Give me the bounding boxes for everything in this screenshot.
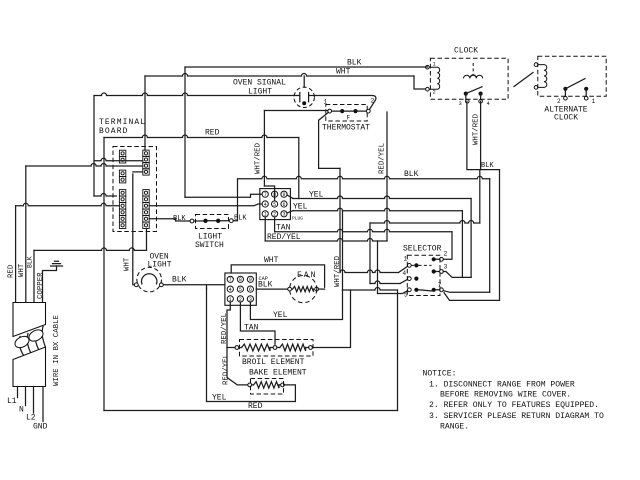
svg-text:BEFORE REMOVING WIRE COVER.: BEFORE REMOVING WIRE COVER.	[440, 391, 571, 400]
wire YEL from cap pin 3	[250, 290, 342, 320]
wire to strip sq2	[94, 158, 143, 161]
wire: y=290 to drop	[343, 288, 398, 291]
wire: selector 4 approach	[370, 281, 400, 284]
svg-text:RED: RED	[8, 264, 16, 278]
plug pin 5	[272, 201, 278, 207]
svg-text:3: 3	[282, 212, 285, 218]
plug pin 2	[272, 211, 278, 217]
cap pin 4	[227, 286, 233, 292]
svg-text:L1: L1	[7, 397, 17, 406]
terminal board dashed box	[113, 147, 157, 232]
broil element dashed box	[240, 340, 314, 357]
svg-text:4: 4	[229, 287, 232, 293]
oven light bulb arc	[142, 274, 157, 284]
svg-text:RED: RED	[248, 402, 263, 411]
wire: lamp tick to WHT	[303, 76, 305, 87]
light switch dashed box	[196, 215, 229, 229]
wire: light switch to BLK line	[233, 180, 237, 221]
clock switch lever	[466, 87, 482, 94]
wire: clock 4 down	[480, 101, 482, 169]
wire: vertical x=94 down	[93, 96, 95, 196]
wire: YEL pin3 drop to selector 3 bus	[461, 211, 463, 278]
wire WHT vertical x=25.8	[25, 166, 27, 303]
cap connector block outline	[225, 273, 256, 305]
wire: BLK into selector 7	[443, 291, 489, 293]
wire BLK feed y=250.4	[34, 248, 147, 251]
oven signal light lamp	[294, 87, 314, 107]
fan dashed circle	[290, 276, 317, 303]
selector left contact row3	[414, 288, 418, 292]
svg-text:BROIL ELEMENT: BROIL ELEMENT	[242, 358, 305, 367]
selector right terminal row3	[440, 288, 444, 292]
svg-text:CLOCK: CLOCK	[454, 47, 478, 56]
wire: RED loop left vertical x=104	[103, 138, 105, 411]
wire COPPER to ground	[43, 266, 57, 303]
selector left terminal row2	[407, 277, 411, 281]
broil resistor 1	[242, 344, 271, 351]
wire BLK top: node from terminal-board riser to clock pin 1	[185, 66, 427, 68]
selector dashed box	[407, 255, 440, 295]
wire: whtred top rail into thermostat 1	[264, 110, 327, 112]
terminal strip lower-right square 3	[143, 203, 149, 209]
thermostat bar	[332, 110, 367, 112]
clock switch contact B	[479, 92, 483, 96]
wire: oven-signal branch left	[94, 93, 294, 96]
lamp dot	[302, 101, 306, 105]
selector left terminal row1	[407, 264, 411, 268]
wire BLK cap to fan	[256, 288, 287, 290]
ground symbol	[51, 261, 63, 266]
wire: x=94 into board	[94, 194, 116, 197]
selector right contact row1	[432, 257, 436, 261]
selector right terminal row2	[440, 270, 444, 274]
light switch left terminal	[190, 219, 194, 223]
alt clock coil terminal top	[534, 63, 538, 67]
thermostat contact a	[340, 109, 344, 113]
svg-text:F: F	[347, 115, 351, 122]
wire: bake right to YEL bottom	[207, 385, 296, 402]
lead L1	[17, 387, 19, 398]
alt clock contact 1	[584, 87, 588, 91]
BX cable sheath lower cylinder	[13, 347, 46, 387]
wire RED bottom	[104, 410, 398, 412]
selector lever row3	[419, 290, 432, 291]
wire YEL from plug pin 3	[293, 208, 462, 211]
clock dashed box	[430, 58, 508, 99]
alternate clock dashed box	[538, 56, 606, 96]
wire: fan right to WHT	[319, 288, 325, 290]
wire: vert x=370 to selector 4 approach	[369, 223, 371, 284]
bake left terminal	[248, 383, 252, 387]
svg-text:RED/YEL: RED/YEL	[221, 313, 229, 344]
clock motor coil	[429, 67, 439, 89]
oven light dashed circle	[137, 267, 162, 292]
svg-text:1: 1	[324, 99, 328, 106]
wire: selector 5 approach	[378, 291, 408, 294]
terminal strip upper-right square 4	[143, 169, 149, 175]
svg-text:RED/YEL: RED/YEL	[223, 354, 231, 385]
alt clock lever	[565, 79, 585, 89]
svg-text:WHT: WHT	[18, 263, 26, 277]
svg-text:TAN: TAN	[244, 324, 259, 333]
broil resistor 2	[280, 344, 306, 351]
wire: link to strip sq4	[133, 171, 143, 173]
wire: RED/YEL drop to selector 5 approach	[377, 241, 379, 294]
wire: plug pin 2 down	[274, 217, 276, 232]
lamp electrodes	[294, 93, 315, 102]
wire BLK oven light to cap block	[163, 285, 225, 289]
plug connector block outline	[260, 189, 291, 220]
wire: riser to plug pin 7	[185, 194, 262, 197]
plug pin 8	[272, 191, 278, 197]
lead L2	[33, 387, 35, 414]
svg-text:CLOCK: CLOCK	[554, 114, 578, 123]
terminal strip lower-left square 3	[119, 203, 125, 209]
alt clock contact 2	[563, 87, 567, 91]
wire: diag into selector 1	[399, 266, 408, 272]
wire: pin 3 stub	[287, 211, 293, 213]
terminal strip lower-left square 6	[119, 222, 125, 228]
svg-text:PLUG: PLUG	[292, 216, 303, 222]
wire: TAN drop to selector 2	[443, 232, 452, 259]
svg-text:4: 4	[403, 270, 407, 277]
wire: broil right up to bus	[312, 290, 350, 348]
svg-text:YEL: YEL	[293, 203, 308, 212]
svg-text:RANGE.: RANGE.	[440, 423, 469, 432]
wire RED feed y=206	[16, 203, 120, 206]
wire: selector 3 bus	[443, 272, 471, 278]
svg-text:LIGHT: LIGHT	[148, 261, 172, 270]
svg-text:BLK: BLK	[258, 281, 273, 290]
terminal strip lower-right square 2	[143, 196, 149, 202]
plug pin 1	[262, 211, 268, 217]
svg-text:1: 1	[404, 256, 408, 263]
svg-text:YEL: YEL	[309, 191, 324, 200]
wire YEL from plug pin 9	[293, 196, 471, 199]
plug pin 4	[262, 201, 268, 207]
terminal strip lower-right square 5	[143, 216, 149, 222]
svg-text:THERMOSTAT: THERMOSTAT	[322, 124, 370, 133]
terminal strip lower-right square 1	[143, 190, 149, 196]
lead N	[25, 387, 27, 406]
svg-text:TAN: TAN	[276, 224, 291, 233]
terminal pair1 square 2	[119, 157, 125, 163]
bake leads	[252, 384, 281, 386]
plug pin 7	[262, 191, 268, 197]
cable twist loops	[13, 334, 31, 350]
cap pin 9	[247, 276, 253, 282]
wire: oven light left lead	[133, 174, 135, 285]
svg-text:WHT/RED: WHT/RED	[473, 113, 481, 145]
svg-text:BLK: BLK	[404, 170, 419, 179]
svg-text:GND: GND	[33, 423, 48, 432]
svg-text:9: 9	[249, 277, 252, 283]
wire WHT/RED vertical x=264.4	[263, 111, 265, 187]
clock inductor arcs	[464, 75, 483, 78]
wire: diag into selector 4	[400, 279, 408, 283]
broil leads	[239, 347, 309, 349]
fan left terminal	[288, 287, 292, 291]
light switch right terminal	[229, 219, 233, 223]
cap pin 6	[247, 286, 253, 292]
svg-text:5: 5	[404, 292, 408, 299]
svg-text:BLK: BLK	[347, 59, 362, 68]
thermostat dashed box	[326, 105, 367, 122]
svg-text:6: 6	[249, 287, 252, 293]
clock dashed link	[472, 63, 474, 75]
svg-text:RED: RED	[205, 129, 220, 138]
svg-text:3. SERVICER PLEASE RETURN DIAG: 3. SERVICER PLEASE RETURN DIAGRAM TO	[429, 412, 604, 421]
alt clock coil terminal bottom	[534, 86, 538, 90]
cable inner wire curves	[19, 327, 45, 357]
lead GND	[42, 387, 44, 422]
terminal pair2 square 1	[119, 170, 125, 176]
pointer line to alternate clock	[514, 73, 533, 87]
terminal strip upper-right square 3	[143, 163, 149, 169]
wire RED top	[104, 135, 299, 138]
selector row1 link	[411, 264, 431, 266]
wire: vertical riser x=185	[184, 67, 186, 197]
terminal strip lower-left square 2	[119, 196, 125, 202]
plug pin 3	[281, 211, 287, 217]
wire: drop x=206.5 to YEL bottom	[206, 288, 208, 402]
wire: pin 9 stub	[287, 195, 293, 199]
bake right terminal	[281, 383, 285, 387]
svg-text:YEL: YEL	[273, 311, 288, 320]
svg-text:8: 8	[239, 277, 242, 283]
wire RED/YEL vertical x=387	[386, 112, 388, 241]
svg-text:1: 1	[592, 98, 596, 105]
svg-text:OVEN SIGNAL: OVEN SIGNAL	[233, 79, 286, 88]
wire: WHT/RED drop x=342.5	[342, 211, 344, 290]
bake element dashed box	[251, 379, 284, 395]
wire RED vertical x=15.6	[15, 206, 17, 303]
svg-text:BLK: BLK	[481, 162, 494, 170]
svg-text:FAN: FAN	[297, 271, 317, 280]
cap pin 7	[227, 276, 233, 282]
svg-text:N: N	[19, 406, 24, 415]
wire: riser x=479.8 down	[479, 170, 481, 223]
terminal strip lower-left square 1	[119, 190, 125, 196]
wire: strip to plug pin 4	[149, 204, 262, 206]
fan resistor	[293, 287, 314, 292]
clock contact stems	[466, 94, 481, 100]
clock terminal 2	[426, 87, 430, 91]
cap pin 5	[237, 286, 243, 292]
wire: thermostat 1 down and jog	[319, 112, 340, 168]
cap pin 2	[237, 296, 243, 302]
wire WHT feed y=166	[26, 164, 143, 167]
oven light right terminal	[160, 283, 164, 287]
wire: selector 1 approach	[340, 270, 399, 273]
wire TAN from plug pin 2	[275, 229, 452, 232]
svg-text:WHT: WHT	[336, 68, 351, 77]
cap pin 8	[237, 276, 243, 282]
BX cable sheath upper cylinder	[13, 303, 46, 337]
wire RED/YEL tap to broil left	[227, 347, 235, 349]
svg-text:9: 9	[282, 192, 285, 198]
wire: RED drop to YEL node	[298, 138, 300, 199]
selector right contact row2	[432, 269, 436, 273]
terminal strip lower-left square 4	[119, 209, 125, 215]
plug pin 9	[281, 191, 287, 197]
broil right terminal	[309, 346, 313, 350]
terminal strip upper-right square 1	[143, 150, 149, 156]
svg-text:2: 2	[557, 98, 561, 105]
svg-text:NOTICE:: NOTICE:	[423, 370, 457, 379]
wire bus y=223	[370, 221, 480, 223]
clock terminal 4	[479, 99, 483, 103]
svg-text:BLK: BLK	[172, 276, 187, 285]
wire: selector 7 lower to x=499.5	[444, 293, 500, 301]
svg-text:RED/YEL: RED/YEL	[267, 233, 301, 242]
svg-text:2: 2	[371, 98, 375, 105]
svg-text:2: 2	[444, 251, 448, 258]
wire: whtred into plug pin 8	[264, 186, 274, 201]
wire RED/YEL from plug pin 1	[265, 239, 387, 242]
wire TAN from cap pin 2	[240, 302, 275, 344]
svg-text:WHT: WHT	[264, 256, 279, 265]
clock switch contact A	[464, 92, 468, 96]
svg-text:7: 7	[264, 192, 267, 198]
svg-text:LIGHT: LIGHT	[248, 88, 272, 97]
svg-text:3: 3	[444, 264, 448, 271]
light switch contact b	[216, 219, 220, 223]
terminal pair1 square 1	[119, 150, 125, 156]
terminal strip lower-right square 6	[143, 222, 149, 228]
oven light left terminal	[134, 283, 138, 287]
svg-text:1. DISCONNECT RANGE FROM POWER: 1. DISCONNECT RANGE FROM POWER	[429, 381, 575, 390]
selector right links	[436, 259, 440, 290]
bake resistor	[254, 382, 280, 388]
alt clock coil	[538, 65, 547, 88]
wire WHT drop to clock pin 2	[414, 76, 426, 89]
svg-text:3: 3	[459, 100, 462, 107]
svg-text:BLK: BLK	[27, 256, 34, 268]
terminal strip lower-right square 4	[143, 209, 149, 215]
alt clock stems	[565, 89, 586, 97]
wire WHT top	[145, 74, 414, 77]
svg-text:WIRE IN BX CABLE: WIRE IN BX CABLE	[53, 314, 61, 386]
svg-text:SELECTOR: SELECTOR	[403, 245, 442, 254]
selector left contact row1	[414, 263, 418, 267]
svg-text:5: 5	[239, 287, 242, 293]
thermostat contact b	[353, 109, 357, 113]
wire: BLK right vertical x=489.7	[489, 179, 491, 292]
svg-text:SWITCH: SWITCH	[195, 241, 224, 250]
wire BLK riser to strip	[146, 229, 148, 251]
svg-text:COPPER: COPPER	[37, 272, 45, 299]
svg-text:5: 5	[273, 202, 276, 208]
wire: clock 3 down and jog	[467, 101, 500, 169]
selector left contact row2	[414, 277, 418, 281]
svg-text:WHT: WHT	[124, 257, 132, 271]
wire: plug pin 1 down	[264, 217, 266, 241]
clock coil squiggle	[471, 75, 476, 77]
broil left terminal	[235, 346, 239, 350]
plug pin 6	[281, 201, 287, 207]
clock terminal 3	[466, 99, 470, 103]
wire: right vertical x=499.5	[499, 170, 501, 301]
svg-text:7: 7	[438, 282, 442, 289]
thermostat terminal 1	[328, 109, 332, 113]
svg-text:L2: L2	[26, 414, 36, 423]
svg-text:RED/YEL: RED/YEL	[379, 143, 387, 174]
alt clock terminal 1	[584, 96, 588, 100]
svg-text:7: 7	[229, 277, 232, 283]
wire: right drop x=397.5	[397, 290, 399, 411]
selector right contact row3	[432, 288, 436, 292]
broil middle terminal	[273, 346, 277, 350]
wire: YEL drop right side	[470, 199, 472, 278]
selector right terminal row1	[440, 257, 444, 261]
wire RED/YEL from cap pin 1 down to bake left	[227, 302, 248, 385]
light switch contact a	[203, 219, 207, 223]
svg-text:6: 6	[282, 202, 285, 208]
wire BLK bus y=178.8	[238, 176, 490, 178]
svg-text:YEL: YEL	[212, 394, 227, 403]
wire: vertical x=340 to selector 1 approach	[339, 168, 341, 272]
wire: vertical from WHT to terminal strip top	[144, 76, 146, 150]
svg-text:BAKE ELEMENT: BAKE ELEMENT	[249, 369, 307, 378]
clock terminal 1	[426, 65, 430, 69]
cap pin 1	[227, 296, 233, 302]
selector left terminal row3	[407, 288, 411, 292]
terminal strip upper-right square 2	[143, 156, 149, 162]
alt clock terminal 2	[564, 96, 568, 100]
wire: lamp to thermostat pin 2	[315, 96, 376, 110]
svg-text:2. REFER ONLY TO FEATURES EQUI: 2. REFER ONLY TO FEATURES EQUIPPED.	[429, 401, 599, 410]
cap pin 3	[247, 296, 253, 302]
wire WHT cap to fan	[231, 265, 324, 287]
terminal strip lower-left square 5	[119, 216, 125, 222]
svg-text:4: 4	[264, 202, 267, 208]
svg-text:BOARD: BOARD	[99, 127, 129, 136]
wire: strip to light switch	[149, 219, 190, 221]
svg-text:TERMINAL: TERMINAL	[99, 118, 146, 127]
light switch bar	[194, 220, 230, 222]
svg-text:WHT/RED: WHT/RED	[255, 142, 263, 174]
thermostat terminal 2	[366, 109, 370, 113]
wire BLK vertical x=34	[33, 250, 35, 302]
terminal pair2 square 2	[119, 177, 125, 183]
fan right terminal	[315, 287, 319, 291]
